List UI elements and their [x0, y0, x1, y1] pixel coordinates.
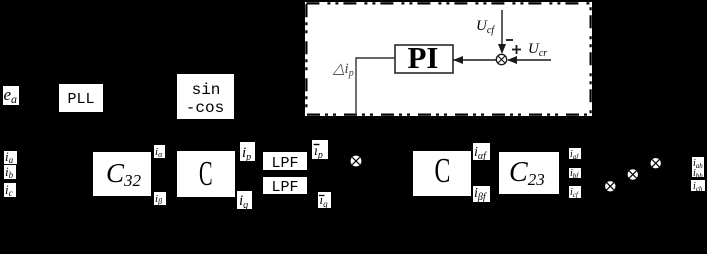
node ibf label [569, 168, 581, 180]
node iq-bar label [318, 192, 331, 209]
block C (dq transform) [177, 151, 235, 197]
node i-alpha-f label [473, 143, 490, 162]
svg-text:C: C [199, 156, 213, 194]
node iaf label [569, 148, 581, 161]
node iah label [692, 157, 704, 170]
block C (inverse transform) [413, 151, 471, 196]
node ich label [691, 180, 705, 193]
node i-beta label [154, 192, 166, 206]
node ea label [3, 85, 19, 106]
block LPF1 [263, 152, 307, 172]
minus sign for Ucf input [506, 39, 513, 41]
plus sign for Ucr input [512, 45, 521, 54]
node icf label [569, 186, 581, 199]
svg-text:LPF: LPF [271, 155, 298, 172]
block C23 [499, 152, 559, 194]
node Ucr label [528, 41, 547, 59]
svg-text:C: C [435, 152, 451, 191]
block LPF2 [263, 177, 307, 196]
node ib label [4, 164, 16, 180]
multiplier X4 [628, 169, 638, 179]
multiplier X3 [605, 181, 615, 191]
node delta-ip label [332, 61, 354, 79]
svg-text:PI: PI [408, 40, 439, 75]
wire Ucf input arrow down [498, 10, 506, 54]
block sin-cos [177, 74, 234, 119]
dashed subsystem box [305, 2, 592, 116]
block C32 [93, 152, 151, 196]
node ip label [240, 142, 255, 163]
summing junction X1 [496, 54, 506, 64]
wire PI output to delta-ip drop [356, 58, 395, 116]
node i-beta-f label [473, 186, 490, 203]
node ic label [4, 182, 16, 198]
node Ucf label [476, 18, 495, 36]
svg-text:PLL: PLL [67, 91, 94, 108]
multiplier X2 [351, 156, 362, 167]
svg-text:sin: sin [192, 81, 221, 99]
block PLL [59, 84, 103, 112]
node i-alpha label [154, 145, 165, 159]
block PI [395, 40, 453, 75]
svg-text:LPF: LPF [271, 179, 298, 196]
node ip-bar label [312, 140, 328, 161]
wire summing junction to PI with arrowhead [453, 56, 496, 64]
node ibh label [692, 168, 704, 180]
node ia label [4, 149, 17, 165]
node iq label [237, 191, 252, 211]
multiplier X5 [651, 158, 661, 168]
svg-text:-cos: -cos [186, 99, 224, 117]
wire Ucr input arrow into summing junction [507, 56, 551, 64]
